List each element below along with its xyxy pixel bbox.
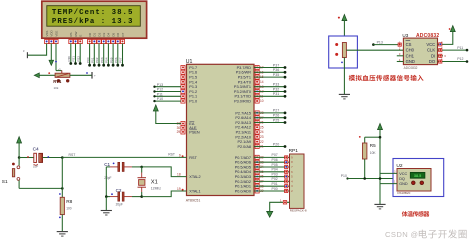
adc DI pin stub (438, 54, 447, 58)
svg-text:P1.7: P1.7 (189, 66, 197, 70)
svg-text:P2.4/A12: P2.4/A12 (235, 126, 251, 130)
svg-text:P03: P03 (100, 57, 104, 63)
svg-text:P3.0/RXD: P3.0/RXD (234, 100, 251, 104)
svg-text:P25: P25 (273, 118, 279, 122)
wire ADC VCC to power arrow (438, 26, 456, 47)
svg-text:CH0: CH0 (406, 48, 415, 53)
svg-text:P02: P02 (272, 177, 278, 181)
wires P0 port to RP1 with labels (254, 153, 290, 192)
svg-text:P06: P06 (114, 57, 118, 63)
red caption analog blood pressure sensor input (349, 75, 424, 81)
svg-text:D2: D2 (97, 32, 101, 36)
power arrow sensor supply (338, 14, 347, 42)
svg-text:DO: DO (429, 59, 436, 64)
svg-text:P1.3: P1.3 (189, 85, 197, 89)
svg-text:P33: P33 (273, 83, 279, 87)
svg-text:E: E (79, 35, 83, 37)
wire power to C4 (19, 156, 34, 158)
svg-text:P06: P06 (272, 158, 278, 162)
node reset rail junction (18, 156, 21, 159)
LCD pin indicator boxes (45, 40, 125, 44)
svg-text:P01: P01 (91, 57, 95, 63)
svg-text:P37: P37 (273, 63, 279, 67)
svg-text:XTAL2: XTAL2 (189, 175, 200, 179)
svg-text:P3.5/T1: P3.5/T1 (238, 76, 251, 80)
op U1 reference label (186, 59, 193, 65)
svg-text:P2.6/A14: P2.6/A14 (235, 116, 251, 120)
svg-text:P0.4/AD4: P0.4/AD4 (235, 170, 251, 174)
svg-text:P00: P00 (86, 57, 90, 63)
wire VSS pin to left terminal (23, 43, 47, 58)
svg-text:P0.7/AD7: P0.7/AD7 (235, 156, 251, 160)
svg-text:P11: P11 (157, 92, 163, 96)
red caption body temperature sensor (402, 211, 430, 217)
svg-text:DQ: DQ (399, 177, 405, 181)
svg-text:RST: RST (168, 153, 175, 157)
svg-text:20pF: 20pF (116, 203, 123, 207)
svg-text:P35: P35 (273, 73, 279, 77)
svg-text:P0.0/AD0: P0.0/AD0 (235, 189, 251, 193)
svg-text:P1.2: P1.2 (189, 90, 197, 94)
svg-text:P1.4: P1.4 (189, 80, 197, 84)
svg-text:P21: P21 (72, 56, 76, 62)
svg-text:P04: P04 (272, 168, 278, 172)
svg-text:25: 25 (260, 125, 264, 129)
svg-text:P03: P03 (272, 172, 278, 176)
svg-text:D4: D4 (107, 32, 111, 36)
svg-text:P11: P11 (457, 46, 463, 50)
svg-text:P1.6: P1.6 (189, 71, 197, 75)
wire ADC DO to P12 (438, 57, 469, 63)
svg-text:P27: P27 (273, 109, 279, 113)
svg-text:AT89C51: AT89C51 (186, 198, 201, 202)
svg-text:23: 23 (260, 135, 264, 139)
svg-text:P3.2/INT0: P3.2/INT0 (234, 90, 251, 94)
capacitor C2 (106, 188, 141, 207)
svg-text:P2.0/A8: P2.0/A8 (237, 145, 251, 149)
power arrow reset rail (17, 137, 22, 158)
svg-text:TEMP/Cent: 38.5: TEMP/Cent: 38.5 (52, 9, 134, 17)
DS18B20 indicator dots (412, 181, 424, 185)
svg-text:C1: C1 (104, 162, 110, 167)
adc U3 ADC0832 body (403, 38, 437, 70)
svg-text:P20: P20 (67, 56, 71, 62)
svg-text:P3.6/WR: P3.6/WR (236, 71, 251, 75)
svg-text:D1: D1 (93, 32, 97, 36)
svg-text:14: 14 (260, 80, 264, 84)
adc U3 pin names (406, 41, 436, 64)
svg-text:XTAL1: XTAL1 (189, 190, 200, 194)
svg-text:10K: 10K (370, 151, 377, 155)
wire ADC CLK to P11 (438, 46, 469, 52)
switch S1 (2, 158, 20, 189)
svg-text:GND: GND (399, 182, 408, 186)
power-down arrow on LCD VDD pin (49, 43, 54, 65)
wire P13 net to ADC CS (372, 40, 401, 46)
wire VEE pin to potentiometer wiper (55, 43, 62, 70)
wires D0-D7 with net labels (86, 43, 124, 66)
svg-text:P2.5/A13: P2.5/A13 (235, 121, 251, 125)
RV1 reference label (53, 79, 69, 90)
watermark text (385, 230, 467, 240)
U1 left pin names (189, 66, 200, 194)
wire C1 to XTAL2 (142, 167, 187, 177)
svg-text:10k: 10k (54, 86, 59, 90)
svg-text:P26: P26 (273, 114, 279, 118)
svg-text:12Mhz: 12Mhz (151, 187, 161, 191)
svg-text:D0: D0 (88, 32, 92, 36)
svg-text:RST: RST (189, 156, 197, 160)
svg-text:P12: P12 (157, 88, 163, 92)
svg-text:P05: P05 (109, 57, 113, 63)
svg-text:@: @ (411, 230, 418, 239)
wire GND stub U2 to ground (374, 181, 397, 209)
svg-text:P0.5/AD5: P0.5/AD5 (235, 165, 251, 169)
capacitor C1 (104, 162, 142, 180)
wire C4 to RST node (43, 156, 63, 158)
temperature sensor DS18B20 body (397, 169, 431, 196)
svg-text:GND: GND (406, 59, 415, 64)
svg-text:P31: P31 (273, 92, 279, 96)
svg-text:20pF: 20pF (104, 176, 111, 180)
svg-text:P36: P36 (273, 68, 279, 72)
crystal X1 (138, 167, 162, 197)
svg-text:P0.1/AD1: P0.1/AD1 (235, 185, 251, 189)
svg-text:RST: RST (69, 153, 76, 157)
resistor pack RP1 reference label (289, 148, 299, 154)
sensor blue box U2 (393, 159, 444, 197)
svg-text:P2.2/A10: P2.2/A10 (235, 135, 251, 139)
wires P3 port with net labels (254, 63, 286, 97)
node RST junction (61, 156, 64, 159)
svg-text:P2.1/A9: P2.1/A9 (237, 140, 251, 144)
svg-text:RV1: RV1 (53, 79, 62, 84)
capacitor C4 (33, 147, 43, 169)
svg-text:CH1: CH1 (406, 53, 415, 58)
LCD module LM016L body (42, 1, 147, 38)
svg-text:P2.3/A11: P2.3/A11 (236, 131, 251, 135)
svg-text:PRES/kPa : 13.3: PRES/kPa : 13.3 (52, 18, 134, 26)
svg-text:P07: P07 (119, 57, 123, 63)
wire sensor to ground (339, 58, 350, 99)
svg-text:P3.3/INT1: P3.3/INT1 (234, 85, 251, 89)
svg-text:VDD: VDD (50, 29, 54, 36)
node XTAL2 junction (140, 166, 143, 169)
wire RV1 right terminal (70, 72, 96, 79)
wire crystal left rail to ground (101, 167, 112, 215)
svg-text:29: 29 (177, 130, 181, 134)
U1 left pin indicator boxes and numbers (177, 66, 185, 192)
resistor R8 (59, 188, 73, 218)
svg-text:P2.7/A15: P2.7/A15 (235, 111, 251, 115)
U1 right pin indicator boxes and numbers (255, 66, 264, 194)
svg-text:P3.7/RD: P3.7/RD (237, 66, 252, 70)
adc U3 title ADC0832 (416, 33, 439, 39)
svg-text:10: 10 (260, 99, 264, 103)
svg-text:P12: P12 (457, 57, 463, 61)
svg-text:VEE: VEE (54, 31, 58, 37)
svg-text:P10: P10 (341, 174, 347, 178)
power terminal arrow left of RV1 (34, 72, 55, 78)
wires RS RW E with net labels (67, 43, 82, 65)
svg-text:P1.1: P1.1 (189, 95, 197, 99)
DS18B20 display readout (410, 172, 425, 178)
svg-text:PSEN: PSEN (189, 130, 200, 134)
svg-text:D7: D7 (121, 32, 125, 36)
svg-text:X1: X1 (151, 179, 158, 185)
svg-text:22: 22 (260, 140, 264, 144)
potentiometer RV1 (55, 69, 70, 78)
svg-text:S1: S1 (2, 179, 8, 185)
svg-text:C4: C4 (33, 147, 39, 153)
U1 part label AT89C51 (186, 198, 201, 202)
ground below R8 (57, 215, 68, 237)
svg-text:1uF: 1uF (33, 164, 38, 168)
svg-text:R5: R5 (370, 143, 376, 148)
wire VCC stub U2 (380, 170, 397, 173)
svg-text:P0.6/AD6: P0.6/AD6 (235, 161, 251, 165)
svg-text:P02: P02 (95, 57, 99, 63)
node XTAL1 junction (140, 195, 143, 198)
svg-text:38.5: 38.5 (414, 174, 421, 178)
wire C2 to XTAL1 (142, 191, 187, 197)
svg-text:CLK: CLK (427, 48, 435, 53)
LCD screen with readout text (47, 6, 141, 27)
U1 right pin names (234, 66, 251, 193)
svg-text:D5: D5 (111, 32, 115, 36)
svg-text:P1.5: P1.5 (189, 76, 197, 80)
svg-text:100: 100 (66, 207, 72, 211)
svg-text:P13: P13 (157, 83, 163, 87)
svg-text:RP1: RP1 (289, 148, 299, 154)
adc U3 left pin stubs and numbers (397, 41, 404, 62)
svg-text:P20: P20 (273, 142, 279, 146)
resistor pack RP1 body (290, 154, 307, 213)
svg-text:P3.4/T0: P3.4/T0 (238, 80, 251, 84)
svg-text:CSDN: CSDN (385, 230, 408, 239)
svg-text:P07: P07 (272, 153, 278, 157)
svg-text:D6: D6 (116, 32, 120, 36)
wire DQ net P10 terminal (341, 174, 397, 180)
svg-text:RS: RS (69, 32, 73, 36)
svg-text:P0.2/AD2: P0.2/AD2 (235, 180, 251, 184)
svg-text:P04: P04 (105, 57, 109, 63)
svg-text:RESPACK-8: RESPACK-8 (290, 209, 307, 213)
svg-text:P13: P13 (377, 40, 383, 44)
svg-text:D3: D3 (102, 32, 106, 36)
wire RP1 common pin to down arrow (267, 198, 290, 217)
LCD pin name labels (rotated) (45, 29, 125, 36)
svg-text:P22: P22 (76, 56, 80, 62)
svg-text:VCC: VCC (399, 172, 407, 176)
resistor R5 (359, 136, 381, 179)
svg-text:P05: P05 (272, 163, 278, 167)
sensor potentiometer inside box (335, 43, 346, 64)
svg-text:RW: RW (74, 31, 78, 36)
power arrow temperature supply (378, 123, 383, 204)
svg-text:+: + (94, 74, 96, 78)
svg-text:CS: CS (406, 42, 412, 47)
svg-text:P01: P01 (272, 182, 278, 186)
svg-text:DS18B20: DS18B20 (397, 191, 410, 195)
svg-text:U3: U3 (402, 33, 408, 38)
sensor blue box (329, 36, 358, 68)
adc U3 reference label (402, 33, 408, 38)
svg-text:VSS: VSS (45, 31, 49, 37)
svg-text:P00: P00 (272, 187, 278, 191)
svg-text:ADC0832: ADC0832 (404, 66, 418, 70)
wire sensor wiper to ADC CH0 (346, 49, 403, 51)
wire S1 to R8 rail (19, 158, 64, 190)
svg-text:P1.0: P1.0 (189, 100, 197, 104)
svg-text:P0.3/AD3: P0.3/AD3 (235, 175, 251, 179)
svg-text:P32: P32 (273, 87, 279, 91)
svg-text:VCC: VCC (426, 42, 435, 47)
svg-text:P10: P10 (157, 97, 163, 101)
wire RST net to U1 (62, 153, 186, 158)
svg-text:R8: R8 (66, 199, 72, 205)
svg-text:24: 24 (260, 130, 264, 134)
wires P1.3-P1.0 with net labels (153, 83, 181, 103)
wires P2 port with net labels (254, 109, 286, 148)
microcontroller U1 AT89C51 body (187, 64, 255, 195)
svg-text:P3.1/TXD: P3.1/TXD (235, 95, 252, 99)
svg-text:DI: DI (431, 53, 435, 58)
power arrow to EA pin (153, 105, 181, 124)
